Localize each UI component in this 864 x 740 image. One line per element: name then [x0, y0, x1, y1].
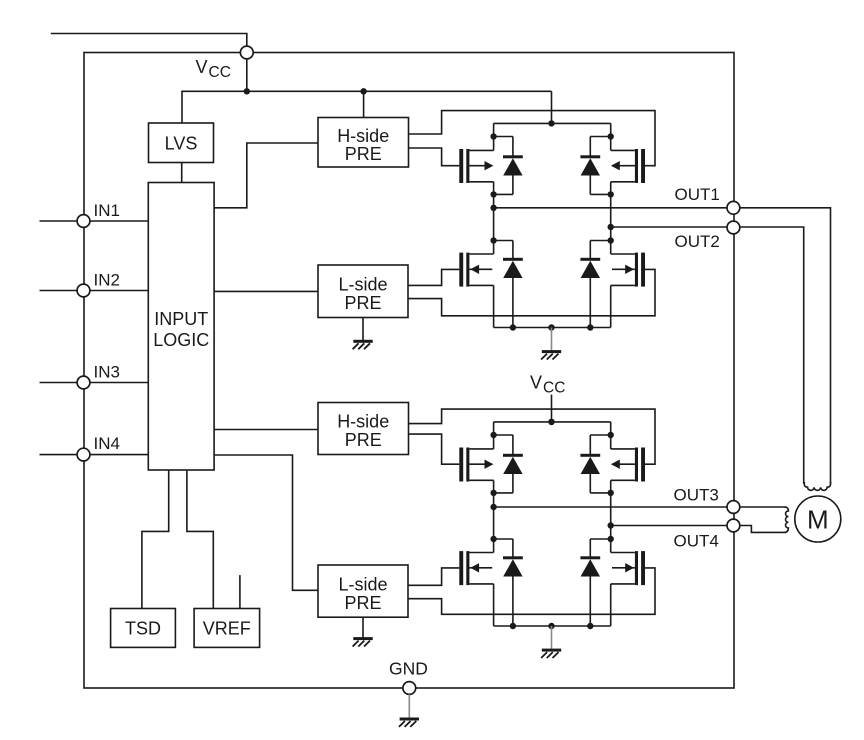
svg-text:M: M	[807, 505, 829, 535]
svg-text:TSD: TSD	[125, 619, 161, 639]
wire OUT2 external	[733, 227, 803, 484]
wire L-side PRE lower output to Q8 gate	[408, 568, 655, 614]
diode D4	[580, 241, 600, 328]
wire VCC terminal to internal rail	[246, 59, 248, 92]
svg-text:V: V	[196, 57, 208, 77]
junction bridge 1 rail center	[548, 120, 554, 126]
wire D8 top branch	[590, 538, 610, 540]
svg-text:H-side: H-side	[337, 126, 389, 146]
wire IN1 input	[40, 220, 149, 222]
junction D5 top	[490, 432, 496, 438]
ground L-side PRE (lower)	[353, 617, 373, 646]
node GND terminal	[403, 682, 416, 695]
junction OUT1 node	[490, 205, 496, 211]
transistor Q1 (high-side left)	[459, 149, 493, 183]
diode D5	[503, 435, 523, 493]
node VCC terminal	[240, 46, 253, 59]
inductor motor winding B (OUT3-OUT4)	[785, 507, 789, 532]
ground external (GND pin)	[399, 694, 419, 727]
diode D3	[503, 241, 523, 328]
junction VCC rail / H-side PRE feed	[360, 88, 366, 94]
ground L-side PRE (upper)	[353, 318, 373, 350]
ground bridge 3	[541, 626, 561, 658]
junction D3 anode / ground rail	[510, 324, 516, 330]
diode D7	[503, 539, 523, 626]
transistor Q5 (high-side left)	[459, 448, 493, 482]
wire L-side PRE upper output to Q7 gate	[408, 568, 459, 585]
wire INPUT LOGIC to L-side PRE (upper)	[214, 290, 318, 292]
junction D3 top	[490, 237, 496, 243]
wire H-side PRE upper output to Q2 gate	[409, 111, 656, 166]
wire Q6 source to Q8 drain	[610, 480, 612, 552]
svg-text:L-side: L-side	[338, 575, 387, 595]
diode D2	[580, 137, 600, 195]
node OUT4 terminal	[727, 519, 740, 532]
wire OUT3 output line	[494, 506, 734, 508]
svg-text:LOGIC: LOGIC	[153, 330, 209, 350]
wire OUT1 output line	[494, 207, 734, 209]
junction D4 anode / ground rail	[587, 324, 593, 330]
inductor motor winding A (OUT1-OUT2)	[804, 482, 830, 490]
junction D1 bottom	[490, 191, 496, 197]
wire Q3 source drop	[493, 285, 495, 327]
wire OUT4 external	[733, 526, 785, 533]
node OUT2 terminal	[727, 221, 740, 234]
node IN1 terminal	[77, 215, 90, 228]
transistor Q6 (high-side right)	[611, 448, 645, 482]
wire OUT1 external	[733, 208, 830, 484]
diode D8	[580, 539, 600, 626]
wire D2 bottom branch	[590, 193, 610, 195]
wire INPUT LOGIC to L-side PRE (lower)	[214, 455, 318, 590]
junction OUT3 node	[490, 504, 496, 510]
junction D8 top	[608, 536, 614, 542]
wire bridge 1 VCC top rail	[494, 122, 611, 124]
node IN4 terminal	[77, 448, 90, 461]
svg-text:H-side: H-side	[337, 412, 389, 432]
svg-text:OUT3: OUT3	[674, 485, 719, 504]
junction ground rail center	[548, 623, 554, 629]
diode D6	[580, 435, 600, 493]
junction D7 top	[490, 536, 496, 542]
junction OUT4 node	[608, 522, 614, 528]
junction D6 top	[608, 432, 614, 438]
wire IN3 input	[40, 382, 149, 384]
wire L-side PRE upper output to Q3 gate	[408, 269, 459, 285]
node IN3 terminal	[77, 376, 90, 389]
wire OUT4 output line	[611, 525, 734, 527]
svg-text:INPUT: INPUT	[154, 309, 208, 329]
junction D7 anode / ground rail	[510, 623, 516, 629]
wire OUT2 output line	[611, 226, 734, 228]
wire INPUT LOGIC to TSD	[142, 470, 169, 609]
junction ground rail center	[548, 324, 554, 330]
wire VCC feed to bridge 3 rail	[551, 395, 553, 422]
L-side PRE box (upper)	[318, 265, 408, 318]
junction D6 bottom	[608, 490, 614, 496]
L-side PRE box (lower)	[318, 565, 408, 617]
svg-text:PRE: PRE	[345, 144, 382, 164]
wire IN2 input	[40, 290, 149, 292]
svg-text:LVS: LVS	[165, 133, 198, 153]
wire Q2 source to Q4 drain	[610, 182, 612, 254]
svg-text:IN4: IN4	[94, 434, 120, 453]
wire LVS to INPUT LOGIC	[181, 163, 183, 183]
VREF box	[194, 609, 260, 648]
junction D1 top	[490, 133, 496, 139]
wire VCC rail to LVS	[181, 91, 183, 124]
svg-text:IN2: IN2	[94, 271, 120, 290]
wire D1 bottom branch	[494, 193, 513, 195]
wire INPUT LOGIC to VREF	[187, 470, 213, 609]
svg-text:GND: GND	[389, 658, 428, 678]
wire D6 top branch	[590, 434, 610, 436]
wire H-side PRE lower output to Q1 gate	[409, 148, 460, 166]
motor M	[795, 496, 841, 542]
H-side PRE box (lower)	[318, 403, 409, 455]
H-side PRE box (upper)	[318, 118, 409, 168]
IC boundary box	[84, 53, 734, 689]
svg-text:V: V	[530, 372, 542, 392]
junction OUT2 node	[608, 224, 614, 230]
svg-text:VREF: VREF	[203, 619, 251, 639]
wire H-side PRE lower output to Q5 gate	[409, 434, 460, 464]
junction VCC rail / terminal feed	[244, 88, 250, 94]
wire D5 bottom branch	[494, 492, 513, 494]
svg-text:PRE: PRE	[344, 293, 381, 313]
junction D8 anode / ground rail	[587, 623, 593, 629]
wire Q5 source to Q7 drain	[493, 480, 495, 552]
svg-text:OUT1: OUT1	[675, 185, 720, 204]
wire L-side PRE lower output to Q4 gate	[408, 269, 655, 315]
transistor Q7 (low-side left)	[459, 551, 493, 585]
wire Q6 drain riser	[610, 422, 612, 449]
node IN2 terminal	[77, 284, 90, 297]
node OUT3 terminal	[727, 501, 740, 514]
svg-text:CC: CC	[209, 64, 231, 81]
wire Q1 drain riser	[493, 123, 495, 150]
svg-text:IN1: IN1	[94, 201, 120, 220]
junction D2 top	[608, 133, 614, 139]
wire Q5 drain riser	[493, 422, 495, 449]
wire D3 top branch	[494, 240, 513, 242]
wire IN4 input	[40, 454, 149, 456]
wire Q8 source drop	[610, 584, 612, 626]
svg-text:L-side: L-side	[338, 275, 387, 295]
wire bridge ground rail	[494, 327, 611, 329]
transistor Q8 (low-side right)	[611, 551, 645, 585]
wire VCC feed to bridge 1 rail	[551, 91, 553, 123]
svg-text:OUT4: OUT4	[674, 532, 719, 551]
wire INPUT LOGIC to H-side PRE (lower)	[214, 429, 318, 431]
wire INPUT LOGIC to H-side PRE (upper)	[214, 143, 318, 208]
wire Q7 source drop	[493, 584, 495, 626]
wire D1 top branch	[494, 136, 513, 138]
ground bridge 1	[541, 328, 561, 360]
wire VCC rail to H-side PRE (upper)	[363, 91, 365, 117]
wire OUT3 external	[733, 506, 785, 508]
wire D7 top branch	[494, 538, 513, 540]
diode D1	[503, 137, 523, 195]
svg-text:PRE: PRE	[344, 593, 381, 613]
wire Q2 drain riser	[610, 123, 612, 150]
junction D5 bottom	[490, 490, 496, 496]
wire Q1 source to Q3 drain	[493, 182, 495, 254]
wire H-side PRE upper output to Q6 gate	[409, 409, 656, 464]
transistor Q3 (low-side left)	[459, 253, 493, 287]
junction bridge 3 rail center	[548, 419, 554, 425]
wire D4 top branch	[590, 240, 610, 242]
wire bridge ground rail	[494, 625, 611, 627]
wire VCC rail	[182, 90, 552, 92]
wire external VCC supply	[51, 34, 247, 47]
transistor Q4 (low-side right)	[611, 253, 645, 287]
svg-text:OUT2: OUT2	[675, 232, 720, 251]
transistor Q2 (high-side right)	[611, 149, 645, 183]
junction D2 bottom	[608, 191, 614, 197]
junction bridge 2 VCC stub	[548, 419, 554, 425]
svg-text:PRE: PRE	[345, 430, 382, 450]
wire D2 top branch	[590, 136, 610, 138]
wire Q4 source drop	[610, 285, 612, 327]
node OUT1 terminal	[727, 201, 740, 214]
LVS box	[149, 123, 214, 163]
wire VREF stub	[239, 575, 241, 608]
wire D5 top branch	[494, 434, 513, 436]
wire bridge 3 VCC top rail	[494, 421, 611, 423]
TSD box	[111, 609, 176, 648]
wire D6 bottom branch	[590, 492, 610, 494]
junction D4 top	[608, 237, 614, 243]
INPUT LOGIC box U1	[148, 183, 214, 471]
svg-text:IN3: IN3	[94, 363, 120, 382]
svg-text:CC: CC	[543, 380, 565, 397]
